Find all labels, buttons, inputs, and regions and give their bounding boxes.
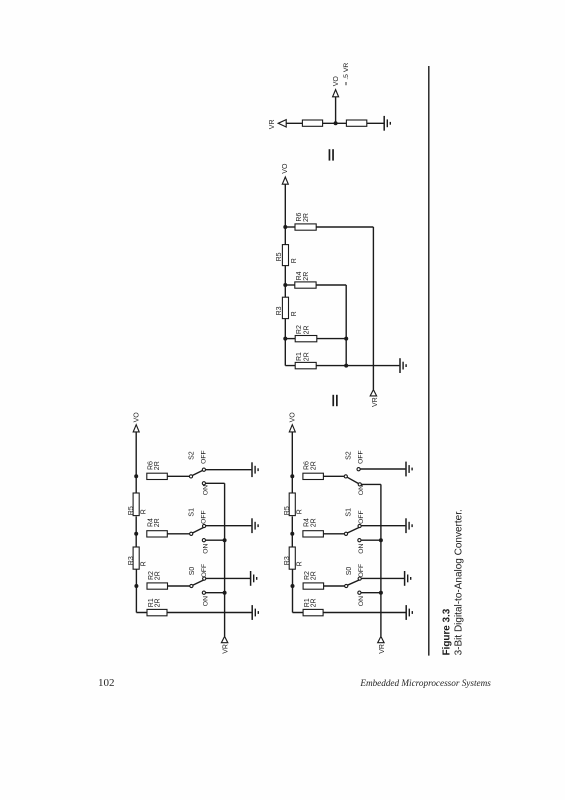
wire rail R3 to R1 <box>284 319 286 366</box>
switch S2 pivot (bottom-right circuit) <box>344 475 347 478</box>
resistor R4 (bottom-left circuit) <box>147 531 168 537</box>
node dot R4 (bottom-left circuit) <box>134 532 138 536</box>
label R5 (bottom-right circuit) <box>284 506 291 515</box>
page number 102 <box>98 677 115 689</box>
equivalence sign (lower) <box>332 395 337 406</box>
node VR label (bottom-left circuit) <box>223 644 230 654</box>
svg-text:VO: VO <box>134 412 141 423</box>
svg-text:ON: ON <box>202 544 209 554</box>
wire S0 ON to rail (bottom-left circuit) <box>206 592 225 594</box>
figure separator rule <box>428 66 430 656</box>
svg-text:VR: VR <box>269 119 276 129</box>
svg-text:OFF: OFF <box>358 564 365 578</box>
svg-text:OFF: OFF <box>201 510 208 524</box>
svg-text:2R: 2R <box>303 272 310 281</box>
wire S0 ON to rail (bottom-right circuit) <box>361 592 381 594</box>
resistor R1 (bottom-left circuit) <box>147 609 167 615</box>
caption 3-Bit Digital-to-Analog Converter. <box>453 509 464 655</box>
svg-text:VO: VO <box>333 76 340 87</box>
svg-text:3-Bit Digital-to-Analog Conver: 3-Bit Digital-to-Analog Converter. <box>453 509 464 655</box>
resistor R4 (bottom-right circuit) <box>303 531 324 537</box>
svg-text:2R: 2R <box>303 213 310 222</box>
wire VR rail (bottom-right circuit) <box>380 484 382 636</box>
wire R4 to inner branch <box>316 284 346 286</box>
svg-text:R5: R5 <box>128 506 135 515</box>
node VO label (top circuit) <box>333 76 340 87</box>
wire R6 to switch S2 (bottom-right circuit) <box>323 475 344 477</box>
wire VR branch vertical <box>372 227 374 390</box>
label S1 (bottom-right circuit) <box>346 508 353 517</box>
label ON of S1 (bottom-left circuit) <box>202 544 209 554</box>
wire bottom to ground (bottom-right circuit) <box>293 612 406 614</box>
svg-text:OFF: OFF <box>201 564 208 578</box>
label OFF of S2 (bottom-left circuit) <box>201 450 208 464</box>
resistor R right (top circuit) <box>346 120 366 126</box>
label S1 (bottom-left circuit) <box>189 508 196 517</box>
ground of S0 (bottom-left circuit) <box>251 571 257 586</box>
svg-text:2R: 2R <box>310 518 317 527</box>
node dot S1 ON rail (bottom-left circuit) <box>223 538 227 542</box>
node dot R2 (middle circuit) <box>283 337 287 341</box>
svg-text:R: R <box>291 311 298 316</box>
wire S1 OFF to ground (bottom-right circuit) <box>361 525 405 527</box>
switch S2 arm to ON (bottom-right circuit) <box>347 477 358 483</box>
wire S1 ON to rail (bottom-right circuit) <box>361 539 381 541</box>
node VO label (bottom-right circuit) <box>290 412 297 423</box>
resistor R4 (middle circuit) <box>295 282 316 288</box>
svg-text:2R: 2R <box>154 461 161 470</box>
label R4 2R (middle circuit) <box>296 271 310 280</box>
svg-text:R: R <box>297 561 304 566</box>
resistor R5 (bottom-right circuit) <box>289 493 295 516</box>
node dot bottom inner (middle) <box>344 364 348 368</box>
svg-text:S2: S2 <box>346 451 353 460</box>
svg-text:VR: VR <box>223 644 230 654</box>
wire S2 ON to rail (bottom-left circuit) <box>206 482 225 484</box>
node dot R6 (bottom-right circuit) <box>290 474 294 478</box>
ground (middle circuit) <box>400 358 406 373</box>
wire rail R5 to R3 (bottom-left circuit) <box>135 516 137 547</box>
switch S0 ON contact (bottom-right circuit) <box>358 591 361 594</box>
wire rail to R2 <box>285 338 295 340</box>
node dot S0 ON rail (bottom-right circuit) <box>379 591 383 595</box>
switch S1 ON contact (bottom-left circuit) <box>202 539 205 542</box>
label R2 2R (bottom-left circuit) <box>148 571 162 580</box>
resistor R3 (middle circuit) <box>282 297 288 318</box>
VR source arrow (bottom-left circuit) <box>221 636 227 642</box>
wire S2 OFF to ground (bottom-right circuit) <box>360 468 405 470</box>
wire VO rail upper <box>284 184 286 244</box>
label ON of S0 (bottom-left circuit) <box>202 596 209 606</box>
switch S0 arm to OFF (bottom-right circuit) <box>348 580 360 585</box>
svg-text:2R: 2R <box>311 571 318 580</box>
svg-text:VR: VR <box>379 644 386 654</box>
label R6 2R (bottom-left circuit) <box>148 461 162 470</box>
ground of S1 (bottom-left circuit) <box>252 518 258 533</box>
svg-text:Figure 3.3: Figure 3.3 <box>441 608 452 655</box>
svg-text:R2: R2 <box>296 325 303 334</box>
wire VR to R left <box>286 122 302 124</box>
resistor R2 (middle circuit) <box>295 336 317 342</box>
label R5 (bottom-left circuit) <box>128 506 135 515</box>
label OFF of S2 (bottom-right circuit) <box>358 450 365 464</box>
switch S2 pivot (bottom-left circuit) <box>189 475 192 478</box>
node VO label (middle circuit) <box>282 163 289 174</box>
switch S2 OFF contact (bottom-right circuit) <box>357 468 360 471</box>
wire S2 OFF to ground (bottom-left circuit) <box>206 469 252 471</box>
wire between resistors <box>323 122 347 124</box>
label ON of S1 (bottom-right circuit) <box>358 544 365 554</box>
label R2 2R (bottom-right circuit) <box>304 571 318 580</box>
label OFF of S0 (bottom-right circuit) <box>358 564 365 578</box>
wire R6 to VR branch <box>316 226 373 228</box>
node dot S0 ON rail (bottom-left circuit) <box>223 591 227 595</box>
VO output arrow (bottom-right circuit) <box>289 425 295 432</box>
wire rail R3 to bottom (bottom-left circuit) <box>135 569 137 612</box>
svg-text:S1: S1 <box>189 508 196 517</box>
wire S1 OFF to ground (bottom-left circuit) <box>206 525 252 527</box>
wire rail to R6 <box>285 226 295 228</box>
switch S0 arm to OFF (bottom-left circuit) <box>193 580 204 585</box>
VO output arrow (middle circuit) <box>282 177 288 184</box>
svg-text:R: R <box>141 561 148 566</box>
ground of R1 (bottom-left circuit) <box>252 605 258 620</box>
svg-text:2R: 2R <box>311 598 318 607</box>
svg-text:2R: 2R <box>154 598 161 607</box>
label R4 2R (bottom-right circuit) <box>304 518 318 527</box>
node VO label (bottom-left circuit) <box>134 412 141 423</box>
resistor R2 (bottom-left circuit) <box>147 583 168 589</box>
wire VO rail upper (bottom-left circuit) <box>135 432 137 493</box>
svg-text:R: R <box>291 258 298 263</box>
resistor R3 (bottom-right circuit) <box>289 547 295 569</box>
caption Figure 3.3 <box>441 608 452 655</box>
svg-text:R5: R5 <box>284 506 291 515</box>
wire R4 to switch S1 (bottom-right circuit) <box>323 533 344 535</box>
node dot R6 (middle circuit) <box>283 225 287 229</box>
node dot S1 ON rail (bottom-right circuit) <box>379 538 383 542</box>
wire R2 to inner branch <box>317 338 346 340</box>
node VR label (bottom-right circuit) <box>379 644 386 654</box>
svg-text:VO: VO <box>282 163 289 174</box>
svg-text:R4: R4 <box>296 271 303 280</box>
switch S1 OFF contact (bottom-right circuit) <box>358 524 361 527</box>
svg-text:2R: 2R <box>303 325 310 334</box>
resistor R1 (middle circuit) <box>295 362 316 368</box>
label R4 2R (bottom-left circuit) <box>148 518 162 527</box>
resistor R6 (bottom-right circuit) <box>303 473 324 479</box>
svg-text:ON: ON <box>202 485 209 495</box>
svg-text:R: R <box>141 509 148 514</box>
label R value of R3 (bottom-left circuit) <box>141 561 148 566</box>
svg-text:S0: S0 <box>346 567 353 576</box>
label R6 2R (middle circuit) <box>296 213 310 222</box>
wire bottom ground rail (middle) <box>285 365 399 367</box>
wire R6 to switch S2 (bottom-left circuit) <box>167 475 189 477</box>
svg-text:VR: VR <box>372 397 379 407</box>
wire R4 to switch S1 (bottom-left circuit) <box>167 533 189 535</box>
switch S1 arm to OFF (bottom-right circuit) <box>347 527 359 533</box>
svg-text:OFF: OFF <box>201 450 208 464</box>
label OFF of S1 (bottom-right circuit) <box>358 510 365 524</box>
label OFF of S1 (bottom-left circuit) <box>201 510 208 524</box>
wire S1 ON to rail (bottom-left circuit) <box>206 539 225 541</box>
label S2 (bottom-left circuit) <box>189 451 196 460</box>
label R1 2R (middle circuit) <box>296 352 310 361</box>
wire VR rail (bottom-left circuit) <box>224 483 226 636</box>
svg-text:R1: R1 <box>296 352 303 361</box>
ground (top circuit) <box>384 116 390 131</box>
running head Embedded Microprocessor Systems <box>0 678 491 688</box>
svg-text:2R: 2R <box>154 518 161 527</box>
svg-text:R3: R3 <box>276 306 283 315</box>
resistor R5 (bottom-left circuit) <box>133 493 139 516</box>
wire S0 OFF to ground (bottom-right circuit) <box>361 577 404 579</box>
label R value of R5 (bottom-left circuit) <box>141 509 148 514</box>
label R value of R5 (bottom-right circuit) <box>297 509 304 514</box>
label OFF of S0 (bottom-left circuit) <box>201 564 208 578</box>
svg-text:S2: S2 <box>189 451 196 460</box>
switch S2 arm to OFF (bottom-left circuit) <box>192 470 202 475</box>
svg-text:ON: ON <box>358 485 365 495</box>
label R1 2R (bottom-right circuit) <box>304 598 318 607</box>
wire R right to ground <box>367 122 384 124</box>
label S0 (bottom-left circuit) <box>189 567 196 576</box>
svg-text:ON: ON <box>358 596 365 606</box>
svg-text:R: R <box>297 509 304 514</box>
ground of S0 (bottom-right circuit) <box>405 571 411 586</box>
label R6 2R (bottom-right circuit) <box>304 461 318 470</box>
svg-text:OFF: OFF <box>358 450 365 464</box>
switch S0 ON contact (bottom-left circuit) <box>202 591 205 594</box>
node dot R2 (bottom-right circuit) <box>291 584 295 588</box>
switch S2 OFF contact (bottom-left circuit) <box>202 468 205 471</box>
resistor R5 (middle circuit) <box>282 245 288 266</box>
switch S1 OFF contact (bottom-left circuit) <box>203 524 206 527</box>
resistor R1 (bottom-right circuit) <box>303 609 323 615</box>
wire rail R5 to R3 (bottom-right circuit) <box>291 516 293 547</box>
wire VO branch <box>335 97 337 124</box>
svg-text:OFF: OFF <box>358 510 365 524</box>
label R5 (middle circuit) <box>276 252 283 261</box>
label R value of R3 (bottom-right circuit) <box>297 561 304 566</box>
node junction dot (top circuit) <box>334 121 338 125</box>
equivalence sign (upper) <box>329 149 334 160</box>
svg-text:R3: R3 <box>128 556 135 565</box>
label R value of R3 (middle) <box>291 311 298 316</box>
node VR label (top circuit) <box>269 119 276 129</box>
ground of R1 (bottom-right circuit) <box>406 605 412 620</box>
node VR label (middle circuit) <box>372 397 379 407</box>
node dot R4 (middle circuit) <box>283 283 287 287</box>
switch S2 ON contact (bottom-left circuit) <box>202 482 205 485</box>
label R1 2R (bottom-left circuit) <box>148 598 162 607</box>
label S0 (bottom-right circuit) <box>346 567 353 576</box>
VR source arrow (top circuit) <box>278 120 286 127</box>
VO output arrow (top circuit) <box>333 90 339 97</box>
switch S0 pivot (bottom-left circuit) <box>190 584 193 587</box>
svg-text:2R: 2R <box>154 571 161 580</box>
wire S0 OFF to ground (bottom-left circuit) <box>206 577 250 579</box>
node dot R2 (bottom-left circuit) <box>134 584 138 588</box>
svg-text:R6: R6 <box>296 213 303 222</box>
switch S0 pivot (bottom-right circuit) <box>345 584 348 587</box>
resistor R6 (middle circuit) <box>295 224 316 230</box>
label R3 (middle circuit) <box>276 306 283 315</box>
switch S1 arm to OFF (bottom-left circuit) <box>193 527 204 533</box>
wire rail to R4 <box>285 284 295 286</box>
switch S0 OFF contact (bottom-right circuit) <box>358 577 361 580</box>
node dot inner branch (middle) <box>344 337 348 341</box>
label S2 (bottom-right circuit) <box>346 451 353 460</box>
ground of S2 (bottom-left circuit) <box>252 462 258 477</box>
switch S1 ON contact (bottom-right circuit) <box>358 539 361 542</box>
svg-text:R5: R5 <box>276 252 283 261</box>
VR source arrow (middle circuit) <box>370 390 376 396</box>
ground of S1 (bottom-right circuit) <box>406 518 412 533</box>
resistor R3 (bottom-left circuit) <box>133 547 139 569</box>
VR source arrow (bottom-right circuit) <box>378 636 384 642</box>
label ON of S2 (bottom-right circuit) <box>358 485 365 495</box>
switch S2 ON contact (bottom-right circuit) <box>358 483 361 486</box>
resistor R left (top circuit) <box>302 120 322 126</box>
svg-text:= .5 VR: = .5 VR <box>343 63 350 86</box>
label R value of R5 (middle) <box>291 258 298 263</box>
svg-text:2R: 2R <box>310 461 317 470</box>
wire rail R5 to R3 <box>284 266 286 298</box>
VO output arrow (bottom-left circuit) <box>133 425 139 432</box>
svg-text:S1: S1 <box>346 508 353 517</box>
label R3 (bottom-right circuit) <box>284 556 291 565</box>
label ON of S0 (bottom-right circuit) <box>358 596 365 606</box>
node dot R4 (bottom-right circuit) <box>290 532 294 536</box>
resistor R2 (bottom-right circuit) <box>303 583 324 589</box>
ground of S2 (bottom-right circuit) <box>406 462 412 477</box>
svg-text:R3: R3 <box>284 556 291 565</box>
label = .5 VR <box>343 63 350 86</box>
switch S1 pivot (bottom-right circuit) <box>344 532 347 535</box>
svg-text:ON: ON <box>202 596 209 606</box>
wire VO rail upper (bottom-right circuit) <box>291 432 293 493</box>
label ON of S2 (bottom-left circuit) <box>202 485 209 495</box>
label R3 (bottom-left circuit) <box>128 556 135 565</box>
svg-text:S0: S0 <box>189 567 196 576</box>
wire bottom to ground (bottom-left circuit) <box>136 612 251 614</box>
switch S0 OFF contact (bottom-left circuit) <box>203 577 206 580</box>
svg-text:VO: VO <box>290 412 297 423</box>
label R2 2R (middle circuit) <box>296 325 310 334</box>
switch S1 pivot (bottom-left circuit) <box>190 532 193 535</box>
wire inner branch vertical <box>345 285 347 366</box>
wire S2 ON to rail (bottom-right circuit) <box>361 483 381 485</box>
wire R2 to switch S0 (bottom-right circuit) <box>324 585 345 587</box>
resistor R6 (bottom-left circuit) <box>147 473 168 479</box>
wire R2 to switch S0 (bottom-left circuit) <box>168 585 190 587</box>
node dot R6 (bottom-left circuit) <box>134 474 138 478</box>
wire rail R3 to bottom (bottom-right circuit) <box>292 569 294 612</box>
svg-text:2R: 2R <box>303 352 310 361</box>
svg-text:ON: ON <box>358 544 365 554</box>
